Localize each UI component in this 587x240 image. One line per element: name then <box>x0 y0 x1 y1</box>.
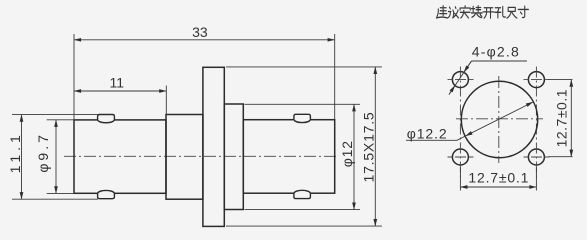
svg-text:φ9.7: φ9.7 <box>35 132 51 173</box>
dimension line 11 <box>74 90 166 92</box>
extension line right for 33 dim <box>334 34 336 120</box>
horizontal centermark top-left hole <box>448 79 474 81</box>
dia 12.2 diameter arrow inside main circle <box>465 102 533 136</box>
hole circle bottom-left <box>452 149 468 165</box>
svg-text:φ12: φ12 <box>339 140 355 167</box>
hole circle top-right <box>528 72 544 88</box>
extension line left for bottom 12.7 dim <box>459 168 461 191</box>
svg-text:11: 11 <box>110 75 125 91</box>
extension line bottom for dia 9.7 dim <box>47 192 74 194</box>
svg-text:12.7±0.1: 12.7±0.1 <box>554 89 570 147</box>
step section behind flange <box>224 104 243 210</box>
extension line top for 17.5X17.5 dim <box>226 66 382 68</box>
dimension line 17.5X17.5 <box>374 67 376 226</box>
dimension line dia 12 <box>353 104 355 209</box>
middle hex section <box>166 115 203 200</box>
char zhuang <box>471 6 482 18</box>
centerline of side view <box>64 155 339 157</box>
extension line bottom for 11.1 dim <box>12 198 98 200</box>
bottom bayonet lug, right tube <box>294 190 311 198</box>
extension line right for 11 dim <box>165 86 167 115</box>
extension line top for 11.1 dim <box>12 114 98 116</box>
right tube body <box>243 120 334 194</box>
horizontal centermark bottom-right hole <box>524 156 550 158</box>
hole circle bottom-right <box>528 149 544 165</box>
4-dia2.8 leader diagonal <box>449 61 472 95</box>
vertical centerline through right holes <box>535 67 537 178</box>
extension line bottom for right 12.7 dim <box>549 156 573 158</box>
main mounting hole circle <box>461 81 537 157</box>
svg-text:33: 33 <box>192 24 208 40</box>
dimension line right 12.7+-0.1 <box>570 80 572 157</box>
hole circle top-left <box>452 72 468 88</box>
svg-text:17.5X17.5: 17.5X17.5 <box>361 111 377 182</box>
extension line top for dia 9.7 dim <box>47 119 74 121</box>
left tube body (coupling end) <box>74 120 166 193</box>
extension line right for bottom 12.7 dim <box>535 168 537 191</box>
extension line bottom for 17.5X17.5 dim <box>226 225 382 227</box>
4-dia2.8 leader underline <box>472 60 528 62</box>
dimension line dia 9.7 <box>55 120 57 194</box>
dia 12.2 leader underline <box>406 139 457 141</box>
extension line left for 33/11 dims <box>73 34 75 120</box>
char an <box>460 6 470 18</box>
svg-text:φ12.2: φ12.2 <box>407 125 447 141</box>
horizontal centermark top-right hole <box>524 79 550 81</box>
top bayonet lug, left tube <box>98 115 115 123</box>
char kong <box>495 6 506 17</box>
char yi <box>448 7 458 18</box>
char kai <box>483 8 494 18</box>
vertical centerline through left holes <box>459 67 461 178</box>
extension line top for right 12.7 dim <box>549 79 573 81</box>
title: recommended mounting hole size (hand-drawn CJK strokes) <box>437 6 529 18</box>
extension line top for dia 12 dim <box>245 103 361 105</box>
4-dia2.8 arrowhead upper (points at hole) <box>464 61 472 72</box>
4-dia2.8 arrowhead lower (points at hole) <box>449 86 455 95</box>
mounting flange (side view) <box>203 67 224 226</box>
dimension line 33 <box>74 39 335 41</box>
horizontal centermark bottom-left hole <box>448 156 474 158</box>
svg-text:11.1: 11.1 <box>7 131 23 173</box>
dimension line bottom 12.7+-0.1 <box>460 186 536 188</box>
vertical centerline of main circle <box>498 76 500 163</box>
char jian <box>437 6 448 18</box>
dia 12.2 leader elbow <box>457 136 465 140</box>
svg-text:12.7±0.1: 12.7±0.1 <box>468 170 528 186</box>
dimension line 11.1 <box>21 115 23 200</box>
char cun <box>518 6 528 17</box>
extension line bottom for dia 12 dim <box>245 209 361 211</box>
top bayonet lug, right tube <box>294 114 311 122</box>
horizontal centerline of main circle <box>456 118 543 120</box>
char chi <box>507 7 517 18</box>
svg-text:4-φ2.8: 4-φ2.8 <box>472 43 519 59</box>
bottom bayonet lug, left tube <box>98 190 115 198</box>
